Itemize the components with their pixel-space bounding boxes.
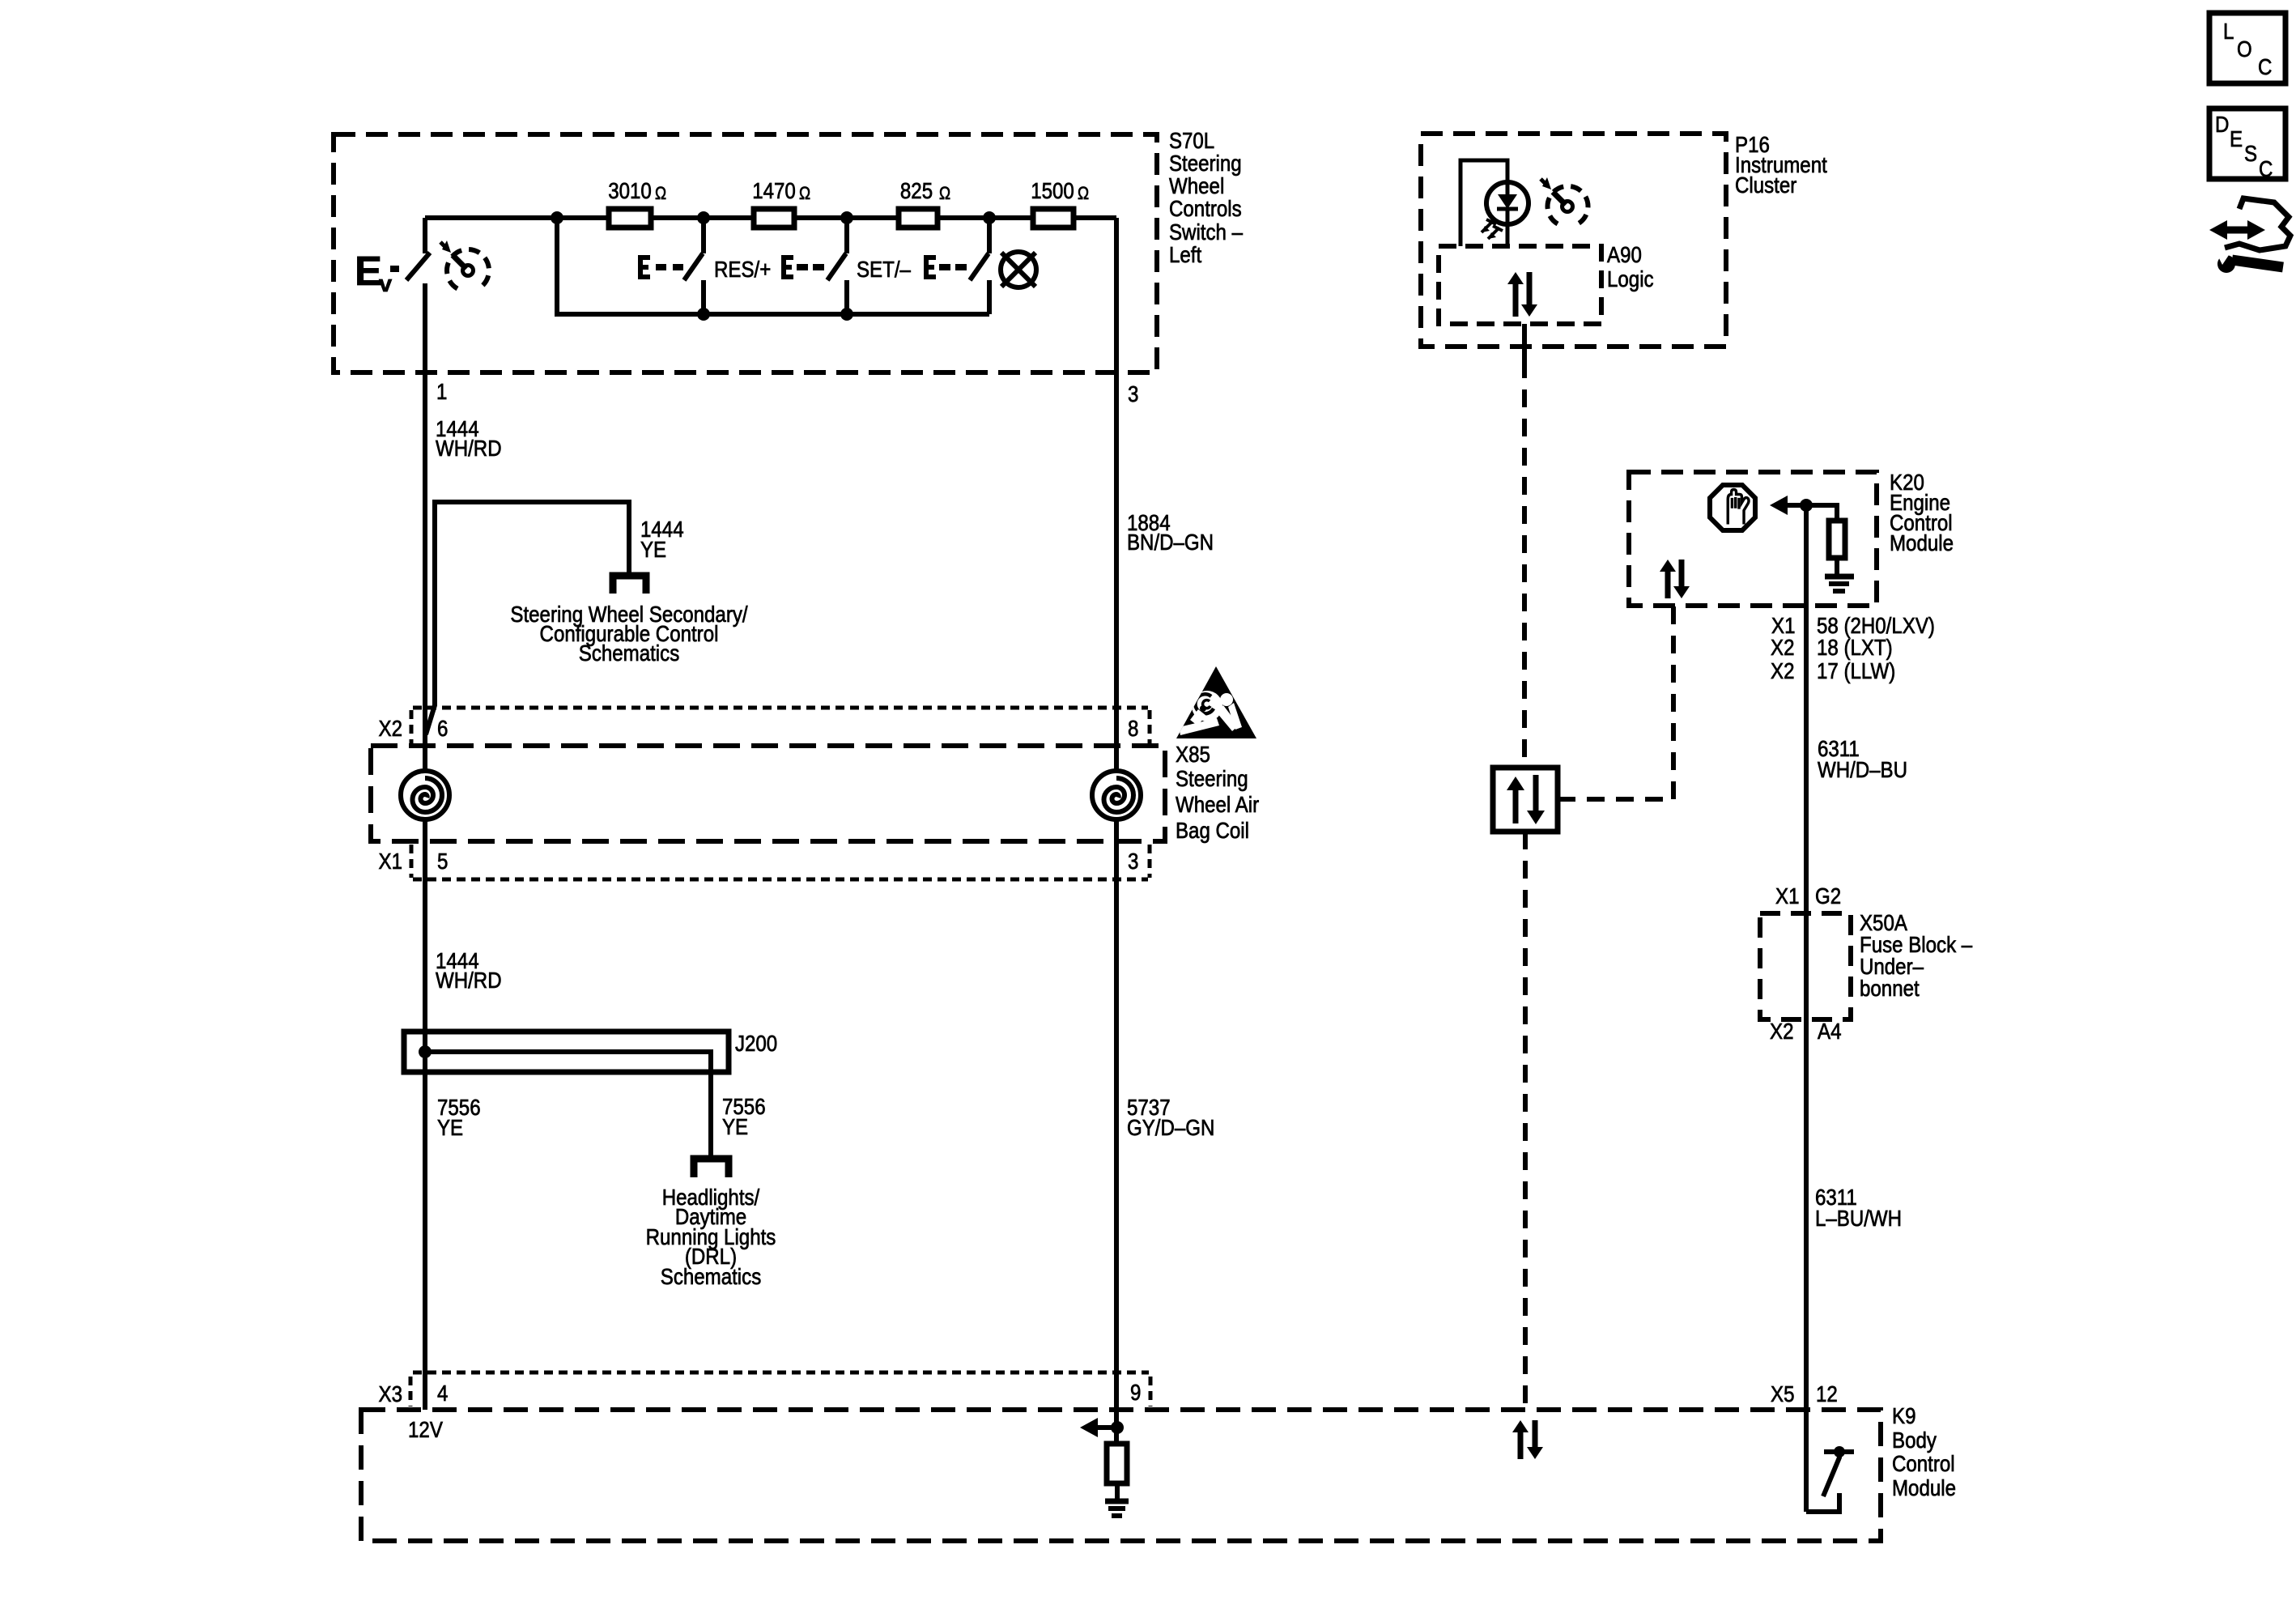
svg-text:G2: G2 <box>1815 883 1841 908</box>
svg-text:X3: X3 <box>379 1381 403 1406</box>
svg-text:1470: 1470 <box>752 178 796 203</box>
svg-text:Wheel Air: Wheel Air <box>1176 792 1259 817</box>
label Steering Wheel Secondary/Configurable Control Schematics <box>510 602 747 666</box>
svg-text:WH/D–BU: WH/D–BU <box>1818 757 1907 782</box>
svg-text:bonnet: bonnet <box>1860 976 1920 1001</box>
svg-text:4: 4 <box>437 1381 448 1406</box>
svg-text:SET/–: SET/– <box>857 257 911 282</box>
svg-text:Cluster: Cluster <box>1735 172 1796 198</box>
splice pack J200 <box>404 1032 729 1159</box>
svg-text:Body: Body <box>1892 1428 1937 1453</box>
connector labels X2 A4 below fuse block <box>1770 1019 1842 1044</box>
svg-text:K9: K9 <box>1892 1403 1916 1428</box>
label Headlights/Daytime Running Lights (DRL) Schematics <box>646 1185 776 1289</box>
icon diagnostic (car outline, double arrow, wrench) top-right <box>2209 198 2290 273</box>
wire loop for indicator LED inside P16 <box>1461 160 1507 246</box>
wire serial data branch to K20 (dashed) <box>1558 797 1673 802</box>
icon LOC (location) button top-right <box>2209 13 2285 83</box>
ground internal in K9 <box>1105 1483 1129 1516</box>
connector labels X1 G2 above fuse block <box>1775 883 1841 908</box>
label A90 Logic <box>1607 242 1654 291</box>
icon DESC (description) button top-right <box>2209 109 2285 181</box>
svg-text:v: v <box>379 271 392 297</box>
svg-text:Steering: Steering <box>1176 766 1248 791</box>
svg-text:S: S <box>2244 141 2257 166</box>
wire pin3 circuit continues down (1884 then 5737) <box>1114 819 1119 1444</box>
icon speedometer (cruise) inside P16 <box>1541 177 1588 224</box>
label wire 1444 WH/RD (lower) <box>436 948 502 993</box>
svg-text:YE: YE <box>437 1115 463 1140</box>
svg-text:Ω: Ω <box>799 183 810 203</box>
svg-text:3010: 3010 <box>608 178 652 203</box>
svg-text:E: E <box>355 248 382 294</box>
connector box S70L Steering Wheel Controls Switch Left (dashed) <box>334 134 1157 372</box>
svg-text:S70L: S70L <box>1169 128 1214 153</box>
serial data gateway box (bidirectional) <box>1493 768 1558 832</box>
wire serial data below gateway to K9 (dashed) <box>1523 832 1528 1410</box>
svg-text:A90: A90 <box>1607 242 1642 267</box>
resistor 1470 ohm <box>752 178 810 228</box>
serial data arrows inside K20 <box>1660 560 1690 598</box>
svg-text:9: 9 <box>1130 1380 1141 1405</box>
svg-text:1: 1 <box>436 379 447 404</box>
resistor internal pull-up in K20 <box>1806 505 1845 558</box>
svg-text:Controls: Controls <box>1169 196 1242 221</box>
label X85 Steering Wheel Air Bag Coil <box>1176 742 1259 843</box>
off-page connector to Headlights/DRL schematics <box>694 1159 729 1177</box>
svg-text:Module: Module <box>1892 1475 1956 1500</box>
connector row X3 (dotted) of K9 <box>410 1372 1150 1406</box>
label K20 Engine Control Module <box>1890 470 1954 555</box>
coil left (clockspring) on pin1 circuit <box>401 771 449 819</box>
component box K9 Body Control Module (dashed) <box>361 1410 1881 1541</box>
logic block A90 inside P16 (dashed) <box>1439 246 1601 324</box>
label S70L Steering Wheel Controls Switch - Left <box>1169 128 1243 267</box>
svg-text:X1: X1 <box>1775 883 1800 908</box>
label wire 5737 GY/D-GN <box>1127 1095 1214 1140</box>
svg-text:5: 5 <box>437 849 448 874</box>
svg-text:E: E <box>2230 126 2243 151</box>
arrow signal into K20 logic <box>1770 496 1813 515</box>
svg-text:Schematics: Schematics <box>661 1264 762 1289</box>
wire bottom bus inside S70L <box>557 218 989 314</box>
switch cruise on/off with Ev symbol <box>355 218 430 372</box>
label X3 row pins <box>379 1380 1142 1406</box>
svg-text:825: 825 <box>900 178 933 203</box>
svg-text:Ω: Ω <box>939 183 950 203</box>
wire pin1 circuit continues down (1444 then 7556) <box>423 819 427 1410</box>
coil right (clockspring) on pin3 circuit <box>1092 771 1141 819</box>
svg-text:Wheel: Wheel <box>1169 173 1224 198</box>
svg-text:Ω: Ω <box>655 183 666 203</box>
wire pin 3 lead down from S70L <box>1114 218 1119 771</box>
svg-text:Logic: Logic <box>1607 266 1654 291</box>
ground internal in K20 <box>1825 558 1854 591</box>
svg-text:Left: Left <box>1169 242 1201 267</box>
warning triangle air bag (SIR caution) <box>1176 666 1256 738</box>
lamp symbol (circle with X) <box>1001 252 1036 287</box>
svg-text:17 (LLW): 17 (LLW) <box>1817 658 1895 683</box>
component box K20 Engine Control Module (dashed) <box>1629 472 1877 606</box>
svg-text:J200: J200 <box>735 1031 777 1056</box>
svg-text:X1: X1 <box>379 849 403 874</box>
svg-text:A4: A4 <box>1818 1019 1842 1044</box>
svg-text:18 (LXT): 18 (LXT) <box>1817 635 1893 660</box>
resistor 825 ohm <box>899 178 950 228</box>
label wire 7556 YE (right branch) <box>722 1094 766 1139</box>
svg-text:GY/D–GN: GY/D–GN <box>1127 1115 1214 1140</box>
svg-text:X2: X2 <box>1771 635 1795 660</box>
connector row X1 (dotted) of X85 <box>411 845 1150 879</box>
switch internal in K9 (input sense) <box>1806 1446 1854 1512</box>
serial data arrows inside K9 <box>1512 1420 1543 1459</box>
label X1 row pins <box>379 849 1139 874</box>
label wire 6311 L-BU/WH <box>1815 1185 1902 1231</box>
svg-text:3: 3 <box>1128 381 1138 406</box>
wire pin 1 lead down from S70L <box>423 283 427 771</box>
svg-text:YE: YE <box>640 537 666 562</box>
svg-text:L–BU/WH: L–BU/WH <box>1815 1206 1902 1231</box>
svg-text:X2: X2 <box>1770 1019 1794 1044</box>
wire 6311 from K20 pin down <box>1804 505 1809 1512</box>
svg-text:BN/D–GN: BN/D–GN <box>1127 530 1214 555</box>
resistor internal pull-up in K9 <box>1107 1444 1127 1483</box>
svg-text:Switch –: Switch – <box>1169 219 1243 245</box>
LED indicator symbol (cruise telltale) <box>1482 182 1529 246</box>
switch lamp (illumination) <box>924 211 996 314</box>
K20 pin list X1 58 / X2 18 / X2 17 <box>1771 613 1935 683</box>
svg-text:12V: 12V <box>408 1417 443 1442</box>
component box X50A Fuse Block Underbonnet (dashed) <box>1760 913 1851 1019</box>
svg-text:D: D <box>2215 112 2229 137</box>
label wire 1444 WH/RD (upper) <box>436 416 502 461</box>
svg-text:C: C <box>2258 54 2272 79</box>
K9 pin labels X5 12 <box>1771 1381 1838 1406</box>
node junction with signal arrow inside K9 <box>1080 1418 1124 1437</box>
label wire 1884 BN/D-GN <box>1127 510 1214 555</box>
label wire 7556 YE (left) <box>437 1095 481 1140</box>
svg-text:O: O <box>2237 36 2252 62</box>
wire branch to steering wheel secondary control <box>426 502 629 734</box>
svg-text:YE: YE <box>722 1114 748 1139</box>
svg-text:RES/+: RES/+ <box>714 257 771 282</box>
svg-text:Ω: Ω <box>1078 183 1089 203</box>
wire serial data from A90 down (dashed) <box>1522 324 1527 360</box>
svg-text:X2: X2 <box>379 716 403 741</box>
wire top bus inside S70L <box>425 215 1116 220</box>
svg-text:X85: X85 <box>1176 742 1210 767</box>
svg-text:C: C <box>2259 156 2273 181</box>
svg-text:1500: 1500 <box>1031 178 1074 203</box>
icon speedometer (cruise control) inside S70L <box>440 240 489 289</box>
svg-text:Steering: Steering <box>1169 151 1242 176</box>
connector row X2 (dotted) of X85 <box>411 708 1150 744</box>
label P16 Instrument Cluster <box>1735 132 1827 198</box>
svg-text:3: 3 <box>1128 849 1138 874</box>
node junction dot left bus tap <box>551 211 563 224</box>
svg-text:Schematics: Schematics <box>579 640 680 666</box>
label wire 1444 YE <box>640 517 684 562</box>
resistor 3010 ohm <box>608 178 666 228</box>
svg-text:WH/RD: WH/RD <box>436 968 502 993</box>
component box P16 Instrument Cluster (dashed) <box>1421 134 1726 347</box>
label X2 row pins <box>379 716 1139 741</box>
svg-text:6: 6 <box>437 716 448 741</box>
svg-text:Module: Module <box>1890 530 1954 555</box>
serial data arrows inside A90 <box>1507 272 1537 317</box>
svg-text:X2: X2 <box>1771 658 1795 683</box>
icon stop hand (octagon) inside K20 <box>1710 485 1755 530</box>
svg-text:X5: X5 <box>1771 1381 1795 1406</box>
switch RES/+ (resume/accel) <box>638 211 710 321</box>
label K9 Body Control Module <box>1892 1403 1956 1500</box>
label X50A Fuse Block - Under-bonnet <box>1860 910 1973 1001</box>
component box X85 Steering Wheel Air Bag Coil (dashed) <box>371 746 1165 841</box>
resistor 1500 ohm <box>1031 178 1089 228</box>
switch SET/- (set/coast) <box>781 211 853 321</box>
svg-text:Bag Coil: Bag Coil <box>1176 818 1249 843</box>
svg-text:12: 12 <box>1816 1381 1838 1406</box>
svg-text:Control: Control <box>1892 1451 1955 1476</box>
svg-text:WH/RD: WH/RD <box>436 436 502 461</box>
svg-text:L: L <box>2223 19 2234 44</box>
label wire 6311 WH/D-BU <box>1818 736 1907 782</box>
off-page connector to Steering Wheel Secondary schematics <box>613 576 646 594</box>
svg-text:8: 8 <box>1128 716 1138 741</box>
